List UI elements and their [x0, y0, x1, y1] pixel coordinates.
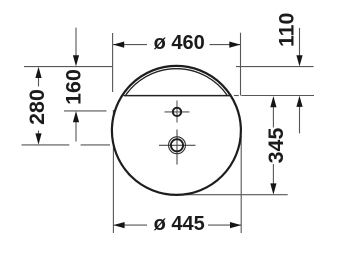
- svg-text:ø 460: ø 460: [154, 32, 205, 54]
- svg-text:160: 160: [62, 69, 86, 105]
- svg-text:110: 110: [275, 12, 299, 47]
- svg-text:ø 445: ø 445: [154, 213, 205, 235]
- svg-text:345: 345: [264, 128, 288, 164]
- svg-text:280: 280: [25, 89, 49, 125]
